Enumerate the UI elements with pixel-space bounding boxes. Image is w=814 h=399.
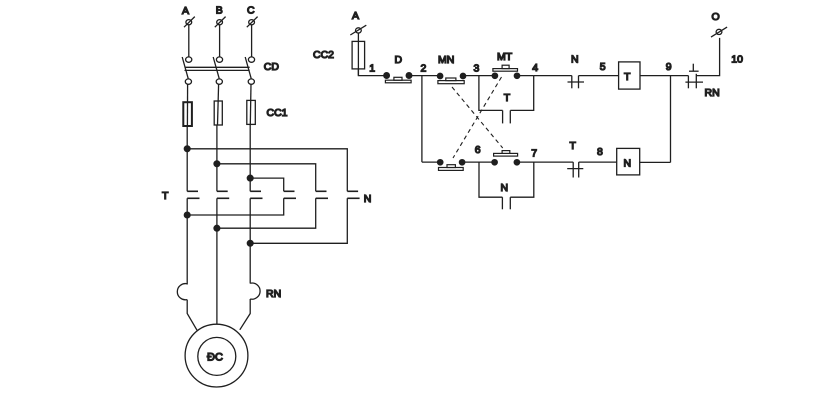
node C (phase C supply terminal)	[247, 5, 258, 28]
wire CD to fuse C	[249, 84, 252, 124]
coil N (contactor coil)	[617, 148, 640, 175]
wire T interlock to coil N	[579, 161, 617, 163]
svg-text:T: T	[162, 190, 169, 202]
svg-text:8: 8	[597, 146, 603, 158]
svg-text:MN: MN	[438, 54, 454, 66]
svg-text:B: B	[216, 5, 223, 17]
thermal element RN phase A	[177, 284, 187, 300]
wire D to MN through node 2	[409, 75, 440, 77]
contact N2	[316, 191, 328, 198]
wire N2 bottom to phase B	[217, 198, 316, 228]
wire node 7 to T interlock	[534, 161, 573, 163]
seal contact T (parallel branch)	[479, 76, 534, 124]
wire node 9 down to coil N output	[670, 76, 672, 163]
junction dot phase A bottom	[184, 212, 190, 218]
svg-text:N: N	[624, 158, 632, 170]
seal contact N (parallel branch)	[479, 162, 534, 209]
svg-text:D: D	[395, 54, 403, 66]
wire phase A contact to RN	[186, 198, 188, 284]
coil T (contactor coil)	[619, 62, 640, 89]
fuse CC1 phase B	[214, 101, 222, 125]
wire MT2 to node 7	[517, 161, 534, 163]
contact N1	[284, 191, 296, 198]
svg-text:3: 3	[474, 62, 480, 74]
wire N1 bottom to phase A	[187, 198, 284, 215]
wire phase A to N3 top	[187, 149, 347, 192]
svg-text:CD: CD	[264, 61, 280, 73]
svg-text:CC2: CC2	[313, 49, 334, 61]
junction dot phase C top	[247, 175, 253, 181]
wire phase A terminal to CD	[188, 25, 190, 57]
wire phase A RN to motor	[187, 300, 197, 331]
svg-text:O: O	[712, 11, 720, 23]
pushbutton MN (start forward, NO)	[437, 54, 465, 84]
svg-text:A: A	[352, 10, 359, 22]
fuse CC1 phase A	[183, 102, 192, 126]
wire RN to node 10 and O terminal	[696, 38, 719, 76]
wire fuse A down through node to contact T1	[186, 126, 188, 191]
wire phase B contact to motor	[216, 198, 218, 324]
junction dot phase A top	[184, 146, 190, 152]
wire phase C to N1 top	[250, 178, 284, 191]
svg-text:T: T	[504, 92, 511, 104]
wire coil T to RN through node 9	[640, 75, 688, 77]
svg-text:RN: RN	[266, 288, 281, 300]
contact T2	[217, 191, 229, 198]
pushbutton D (stop, NC)	[384, 54, 412, 83]
svg-text:5: 5	[600, 61, 606, 73]
wire phase B terminal to CD	[219, 25, 221, 57]
wire CD to fuse B	[218, 84, 219, 125]
svg-text:T: T	[624, 71, 631, 83]
node A (phase A supply terminal)	[182, 5, 195, 27]
node B (phase B supply terminal)	[215, 5, 226, 28]
mechanical link MT to MD (dashed)	[453, 77, 502, 158]
wire MD to MT2 through node 6	[462, 161, 495, 163]
junction dot phase B top	[214, 161, 220, 167]
interlock contact T (NC)	[567, 140, 583, 178]
wire phase C RN to motor	[240, 299, 250, 330]
wire terminal to CC2	[357, 33, 359, 76]
node O (control supply terminal)	[711, 11, 727, 37]
relay contact RN (NC, thermal)	[685, 64, 719, 99]
svg-text:7: 7	[531, 147, 537, 159]
svg-text:T: T	[570, 140, 577, 152]
switch CD (3-pole knife switch)	[182, 57, 279, 84]
svg-text:10: 10	[731, 53, 743, 65]
wire fuse B down through node to contact T2	[216, 125, 218, 191]
contact T1	[187, 191, 199, 198]
wire node 2 branch to MD	[422, 161, 440, 163]
wire N3 bottom to phase C	[250, 198, 347, 243]
svg-text:4: 4	[532, 62, 538, 74]
wire N interlock to coil T	[579, 75, 619, 77]
svg-text:N: N	[571, 54, 579, 66]
wire node 2 down to reverse branch	[421, 76, 423, 163]
svg-text:A: A	[182, 5, 189, 17]
contact T3	[250, 191, 262, 198]
wire phase C terminal to CD	[251, 25, 253, 57]
svg-text:N: N	[501, 182, 509, 194]
wire CD to fuse A	[186, 84, 188, 126]
svg-text:MT: MT	[497, 51, 513, 63]
mechanical link MN to MT2 (dashed)	[452, 87, 503, 148]
fuse CC1 phase C	[247, 100, 256, 124]
fuse CC2	[352, 41, 365, 69]
svg-text:C: C	[247, 5, 255, 17]
svg-text:CC1: CC1	[267, 107, 288, 119]
svg-text:6: 6	[475, 144, 481, 156]
wire MN to MT through node 3	[463, 75, 495, 77]
pushbutton MT (NC contact)	[492, 51, 520, 79]
contact N3	[347, 191, 359, 198]
svg-text:9: 9	[666, 61, 672, 73]
svg-text:RN: RN	[705, 87, 720, 99]
node A (control supply terminal)	[350, 10, 366, 35]
pushbutton MD (start reverse, NO)	[438, 160, 465, 171]
thermal element RN phase C	[250, 283, 260, 299]
svg-text:2: 2	[421, 62, 427, 74]
motor DC	[185, 324, 248, 387]
wire phase B to N2 top	[217, 164, 316, 192]
interlock contact N (NC)	[568, 54, 585, 89]
wire MT to node 4	[517, 75, 534, 77]
wire coil N to node 9 vertical	[640, 161, 671, 163]
pushbutton MT2 (MT NO contact)	[492, 151, 520, 165]
svg-text:ĐC: ĐC	[207, 352, 223, 364]
svg-text:1: 1	[369, 62, 375, 74]
junction dot phase C bottom	[247, 240, 253, 246]
wire CC2 to node 1	[358, 69, 386, 76]
wire node 4 to N interlock	[534, 75, 572, 77]
wire phase C contact to RN	[249, 198, 251, 283]
svg-text:N: N	[364, 193, 372, 205]
wire fuse C down through node to contact T3	[249, 124, 251, 191]
junction dot phase B bottom	[214, 225, 220, 231]
